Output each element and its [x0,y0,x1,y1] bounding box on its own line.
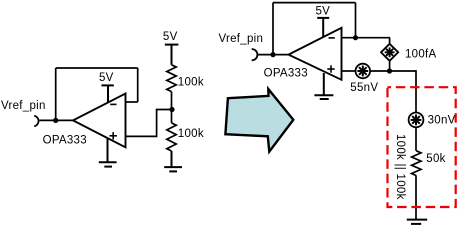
wire non-inverting input to 55nV source [342,70,356,72]
ground divider equivalent (right) [407,220,427,224]
svg-text:100k: 100k [178,77,204,89]
op-amp U1 OPA333 (left, mirrored triangle) [73,94,126,148]
wire feedback right vertical (right) [355,3,357,38]
wire terminal to op-amp output (right) [257,54,289,56]
wire diamond to node [389,61,391,71]
svg-text:5V: 5V [316,6,331,18]
wire resistor to ground [415,176,417,220]
node divider midpoint [169,107,174,112]
power 5V divider (left) [165,45,179,65]
wire feedback top (left) [56,67,138,69]
ground op-amp (right) [314,73,333,99]
power 5V op-amp (left) [102,85,114,103]
node noise sum junction [387,68,392,73]
svg-text:30nV: 30nV [428,115,456,127]
node output junction (left) [53,118,58,123]
resistor R1 100k (upper divider) [167,65,176,92]
ground divider (left) [164,151,182,171]
ground op-amp (left) [99,138,117,167]
power 5V op-amp (right) [317,18,329,37]
current noise source 100fA (diamond) [381,44,398,61]
voltage noise source 30nV [409,113,424,128]
svg-text:50k: 50k [426,153,445,165]
wire midpoint to R2 [171,110,173,123]
node inverting junction (right) [353,35,358,40]
wire terminal to op-amp output (left) [39,119,74,121]
node Vref_pin terminal (right circuit) [252,49,258,60]
svg-text:55nV: 55nV [350,82,378,94]
wire corner down to current source [389,38,391,44]
wire R1 to midpoint node [171,92,173,110]
wire feedback left vertical (left) [55,68,57,120]
arrow (teal block arrow) [225,89,293,152]
wire inverting input rail (right) [342,37,391,39]
pin minus (right op-amp) [329,37,335,39]
svg-text:100fA: 100fA [405,49,437,61]
op-amp U2 OPA333 (right, mirrored triangle) [289,28,342,80]
wire feedback right vertical (left) [137,68,139,102]
svg-text:Vref_pin: Vref_pin [1,100,46,112]
svg-text:5V: 5V [163,31,178,43]
pin plus (right op-amp) [327,65,334,72]
voltage noise source 55nV [356,64,371,79]
svg-text:OPA333: OPA333 [43,134,87,146]
node output junction (right) [270,52,275,57]
node Vref_pin terminal (left circuit) [34,116,38,127]
svg-text:100k: 100k [178,128,204,140]
wire non-inverting input to divider tap (left) [126,110,173,137]
pin plus (left op-amp) [110,132,117,139]
svg-text:Vref_pin: Vref_pin [219,33,264,45]
resistor R2 100k (lower divider) [167,123,176,151]
pin minus (left op-amp) [110,103,116,105]
resistor Req 50k [412,151,421,176]
boundary red dashed box (divider noise model) [388,87,456,207]
svg-text:100k || 100k: 100k || 100k [394,134,406,200]
wire node to divider equivalent branch [390,71,417,113]
wire feedback left vertical (right) [272,3,274,55]
wire feedback top (right) [273,2,356,4]
svg-text:5V: 5V [99,72,114,84]
svg-text:OPA333: OPA333 [264,68,308,80]
wire 30nV to resistor [415,127,417,151]
wire feedback to inverting input (left) [126,101,138,103]
wire 55nV to node [370,70,389,72]
